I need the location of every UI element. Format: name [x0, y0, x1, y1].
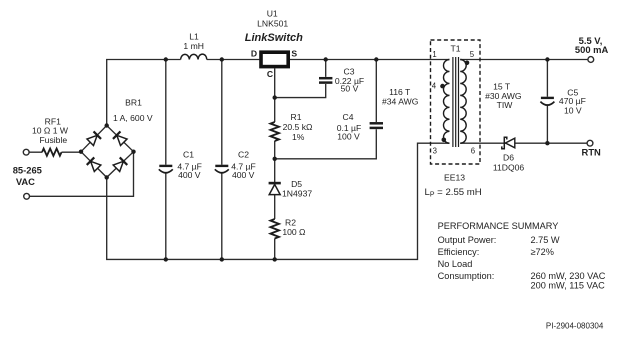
svg-text:Efficiency:: Efficiency:: [438, 247, 480, 257]
svg-text:PERFORMANCE SUMMARY: PERFORMANCE SUMMARY: [438, 221, 559, 231]
svg-text:#34 AWG: #34 AWG: [382, 97, 419, 107]
svg-text:260 mW, 230 VAC: 260 mW, 230 VAC: [531, 271, 606, 281]
svg-text:400 V: 400 V: [232, 170, 255, 180]
svg-text:D6: D6: [503, 153, 514, 163]
svg-text:15 T: 15 T: [493, 81, 511, 91]
svg-text:VAC: VAC: [16, 176, 35, 187]
svg-text:PI-2904-080304: PI-2904-080304: [546, 322, 604, 331]
svg-text:Consumption:: Consumption:: [438, 271, 495, 281]
svg-text:LinkSwitch: LinkSwitch: [245, 32, 303, 44]
svg-text:≥72%: ≥72%: [531, 247, 554, 257]
svg-text:5: 5: [470, 50, 475, 59]
svg-text:1: 1: [432, 50, 436, 59]
svg-text:116 T: 116 T: [389, 87, 411, 97]
svg-text:1 mH: 1 mH: [183, 41, 204, 51]
svg-text:Output Power:: Output Power:: [438, 235, 497, 245]
svg-text:BR1: BR1: [125, 97, 142, 107]
svg-text:10 Ω 1 W: 10 Ω 1 W: [32, 126, 69, 136]
svg-text:6: 6: [471, 147, 475, 156]
svg-text:LNK501: LNK501: [257, 19, 288, 29]
svg-text:RTN: RTN: [582, 147, 601, 158]
svg-text:11DQ06: 11DQ06: [493, 163, 525, 173]
svg-text:No Load: No Load: [438, 259, 473, 269]
svg-text:EE13: EE13: [444, 172, 465, 182]
svg-text:U1: U1: [267, 9, 278, 19]
svg-text:1N4937: 1N4937: [282, 189, 312, 199]
svg-text:R1: R1: [291, 112, 302, 122]
svg-text:D5: D5: [291, 179, 302, 189]
svg-text:C: C: [267, 69, 273, 79]
svg-text:500 mA: 500 mA: [575, 44, 609, 55]
svg-text:1%: 1%: [292, 132, 305, 142]
svg-text:100 V: 100 V: [337, 132, 360, 142]
svg-text:T1: T1: [450, 44, 460, 54]
svg-text:C4: C4: [343, 112, 354, 122]
svg-text:Fusible: Fusible: [39, 135, 67, 145]
svg-text:50 V: 50 V: [341, 84, 359, 94]
svg-text:400 V: 400 V: [178, 170, 201, 180]
svg-text:20.5 kΩ: 20.5 kΩ: [283, 122, 313, 132]
svg-text:LP = 2.55 mH: LP = 2.55 mH: [425, 187, 482, 199]
svg-text:3: 3: [433, 147, 437, 156]
svg-text:10 V: 10 V: [564, 106, 582, 116]
svg-text:C1: C1: [183, 150, 194, 160]
svg-text:2.75 W: 2.75 W: [531, 235, 560, 245]
svg-text:85-265: 85-265: [13, 164, 42, 175]
svg-text:R2: R2: [285, 217, 296, 227]
svg-text:100 Ω: 100 Ω: [282, 227, 306, 237]
svg-text:4: 4: [432, 81, 437, 90]
svg-text:200 mW, 115 VAC: 200 mW, 115 VAC: [531, 281, 606, 291]
svg-text:D: D: [251, 48, 257, 58]
svg-text:TIW: TIW: [497, 100, 514, 110]
svg-text:S: S: [291, 49, 297, 59]
svg-text:C2: C2: [238, 150, 249, 160]
svg-text:1 A, 600 V: 1 A, 600 V: [113, 113, 153, 123]
